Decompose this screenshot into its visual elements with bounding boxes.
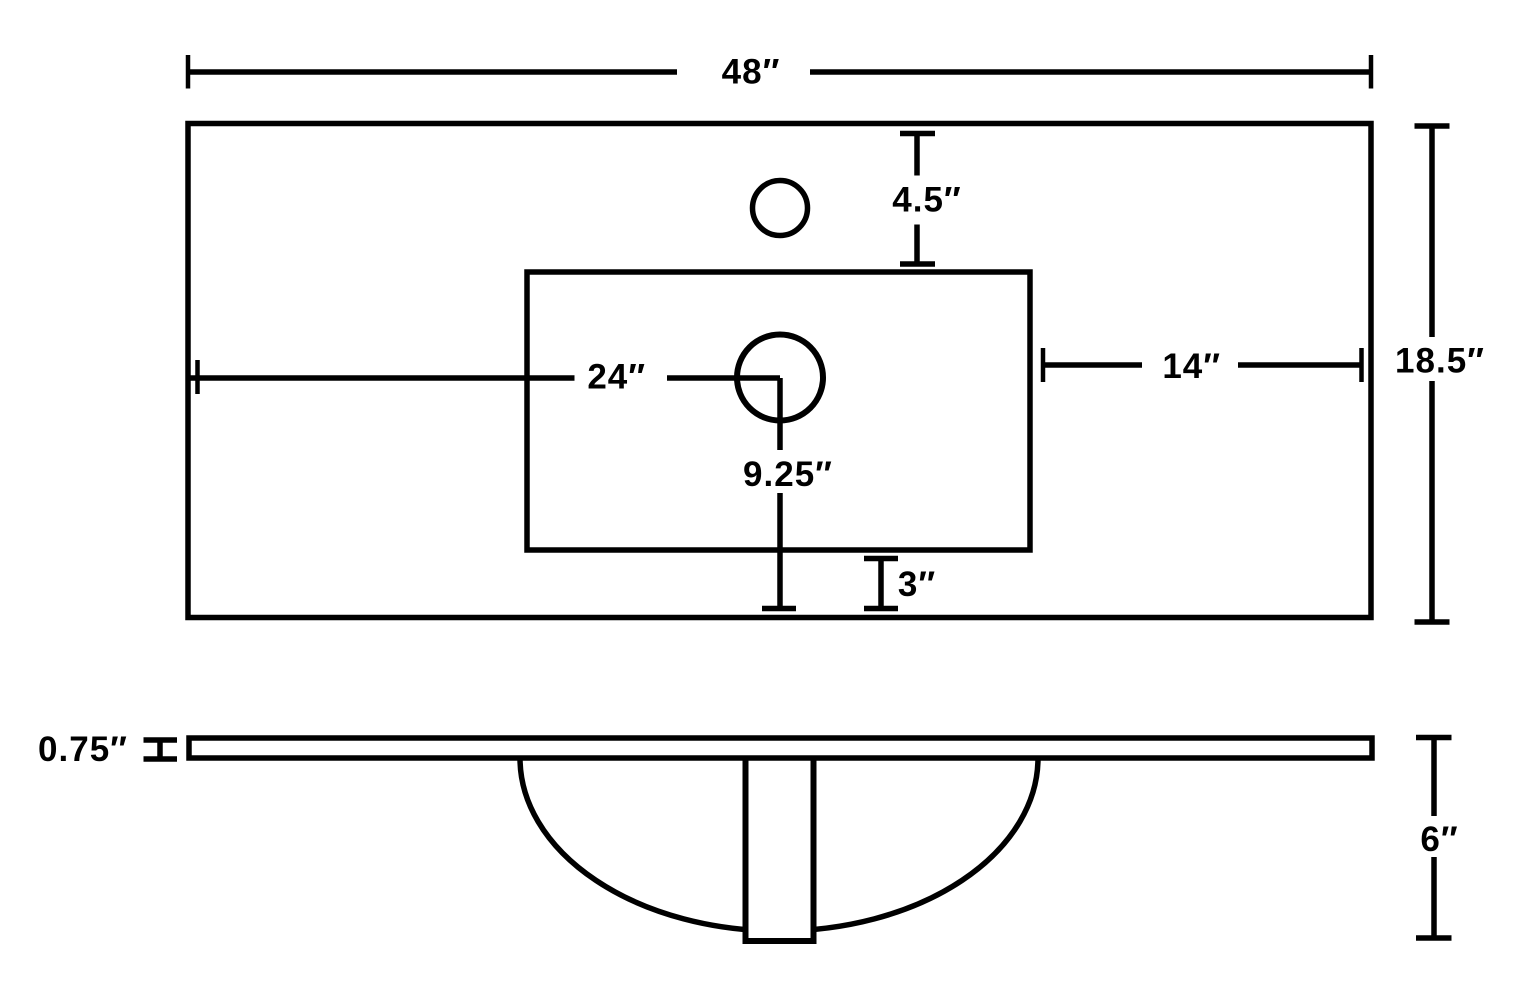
basin bowl arc (side view): [520, 758, 1038, 931]
dimension 9.25" line: [762, 378, 796, 609]
svg-text:6″: 6″: [1420, 820, 1458, 859]
dimension 4.5" line: [900, 134, 935, 265]
sink cutout rectangle: [527, 272, 1030, 550]
svg-text:9.25″: 9.25″: [743, 455, 833, 494]
faucet hole: [753, 181, 808, 236]
counter slab (side view): [189, 738, 1372, 758]
svg-text:24″: 24″: [587, 358, 646, 397]
svg-text:4.5″: 4.5″: [892, 181, 961, 220]
dimension 6" line: [1416, 738, 1452, 939]
svg-text:0.75″: 0.75″: [38, 730, 128, 769]
svg-text:14″: 14″: [1162, 347, 1221, 386]
dimension 48" line: [188, 55, 1371, 89]
drain hole: [737, 335, 823, 421]
svg-text:18.5″: 18.5″: [1395, 342, 1485, 381]
dimension 3" line: [864, 559, 898, 609]
dimension 0.75" marker: [144, 740, 178, 759]
svg-text:3″: 3″: [898, 565, 936, 604]
dimension 18.5" line: [1415, 126, 1450, 622]
vanity top outline (top view): [188, 124, 1371, 618]
dimension 24" line: [190, 360, 780, 394]
svg-text:48″: 48″: [722, 53, 781, 92]
drain pipe (side view): [749, 760, 811, 936]
dimension 14" line: [1043, 348, 1362, 382]
